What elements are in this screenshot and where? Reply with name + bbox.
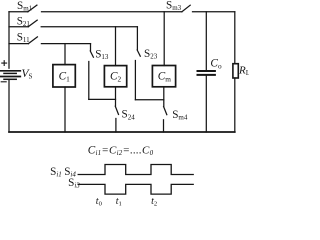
- rail 1 wire middle segment: [42, 11, 182, 13]
- battery Vs plate long bottom: [1, 76, 21, 78]
- capacitor C2 top wire: [115, 27, 117, 66]
- svg-text:t2: t2: [151, 196, 157, 206]
- svg-text:Sm3: Sm3: [166, 0, 182, 12]
- capacitor C1 box: [53, 65, 75, 87]
- rail 3 wire left segment: [9, 43, 28, 45]
- waveform Si3 trace: [78, 184, 193, 194]
- svg-text:Sm1: Sm1: [17, 0, 33, 12]
- resistor RL bottom wire: [234, 78, 236, 132]
- capacitor C1 top wire: [64, 44, 66, 65]
- battery minus sign: [1, 81, 6, 83]
- battery plus sign: [2, 61, 7, 66]
- capacitor C2 bottom wire: [115, 87, 117, 106]
- switch S13 lever: [90, 51, 93, 57]
- wire left vertical bottom: [8, 80, 10, 132]
- svg-text:S11: S11: [17, 32, 30, 45]
- rail 3 wire right segment: [41, 43, 90, 45]
- bottom rail wire: [9, 131, 235, 133]
- svg-text:Cm: Cm: [158, 71, 171, 84]
- switch S23 lever: [137, 50, 140, 56]
- rail 1 wire left segment: [9, 11, 28, 13]
- capacitor Cm box: [152, 66, 175, 87]
- svg-text:S21: S21: [17, 16, 31, 29]
- switch Sm3 lever: [182, 5, 190, 12]
- waveform Si1 Si4 trace: [78, 165, 193, 175]
- switch S24 lever: [115, 106, 118, 114]
- switch S11 lever: [28, 37, 37, 44]
- switch Sm1 lever: [28, 5, 37, 12]
- svg-text:Si3: Si3: [68, 177, 80, 190]
- capacitor Co bottom plate: [198, 74, 215, 76]
- capacitor C1 bottom wire: [64, 87, 66, 132]
- rail 2 wire left segment: [9, 26, 28, 28]
- switch Sm4 lever: [164, 107, 167, 115]
- wire left vertical top: [8, 12, 10, 68]
- svg-text:t1: t1: [116, 196, 122, 206]
- capacitor Cm bottom wire: [163, 87, 165, 106]
- svg-text:Co: Co: [210, 57, 222, 70]
- wire S24 lower: [115, 119, 117, 133]
- rail 2 wire right segment: [41, 26, 137, 28]
- rail 1 wire right segment: [193, 11, 235, 13]
- wire S13 lower: [88, 62, 90, 100]
- capacitor Co top plate: [198, 70, 215, 72]
- battery Vs plate short: [4, 72, 16, 74]
- wire S23 bottom horizontal: [135, 99, 163, 101]
- svg-text:C2: C2: [110, 71, 121, 84]
- wire RL top vertical: [234, 12, 236, 64]
- switch S21 lever: [28, 20, 37, 27]
- svg-text:S23: S23: [144, 48, 158, 61]
- svg-text:VS: VS: [22, 68, 33, 81]
- capacitor Cm top wire: [163, 12, 165, 66]
- battery Vs plate long top: [1, 70, 21, 72]
- battery Vs plate short bottom: [4, 78, 16, 80]
- svg-text:t0: t0: [96, 196, 103, 206]
- svg-text:S24: S24: [122, 109, 136, 122]
- svg-text:S13: S13: [95, 49, 109, 62]
- capacitor Co top wire: [205, 12, 207, 70]
- capacitor C2 box: [104, 66, 126, 87]
- wire Sm4 lower: [163, 120, 165, 132]
- svg-text:RL: RL: [238, 64, 249, 77]
- wire S13 bottom horizontal: [89, 98, 116, 100]
- capacitor Co bottom wire: [205, 76, 207, 132]
- wire S13 upper: [90, 44, 92, 51]
- wire S23 upper: [136, 27, 138, 50]
- svg-text:Sm4: Sm4: [172, 109, 188, 122]
- resistor RL box: [233, 64, 238, 78]
- wire S23 lower: [134, 61, 136, 100]
- svg-text:C1: C1: [59, 71, 70, 84]
- svg-text:Ci1=Ci2=....C0: Ci1=Ci2=....C0: [88, 144, 154, 157]
